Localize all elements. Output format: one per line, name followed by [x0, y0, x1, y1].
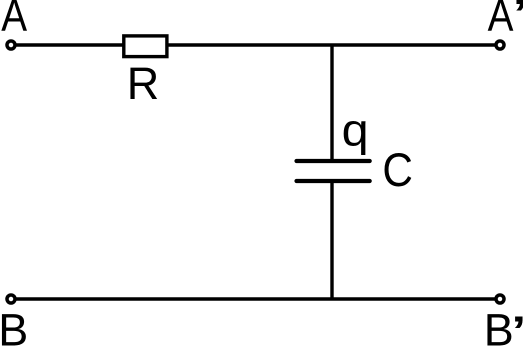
- terminal A': [496, 41, 504, 49]
- svg-text:’: ’: [510, 306, 523, 347]
- svg-text:B: B: [0, 305, 28, 347]
- svg-text:A: A: [488, 0, 514, 40]
- label B' apostrophe: [510, 306, 523, 347]
- capacitor C top plate: [297, 159, 370, 163]
- svg-text:C: C: [382, 143, 413, 197]
- capacitor C bottom plate: [297, 179, 370, 183]
- label A' letter: [488, 0, 514, 40]
- label q: [342, 105, 369, 155]
- label A: [1, 0, 27, 40]
- terminal B: [7, 295, 15, 303]
- wire top rail A to A': [11, 43, 500, 46]
- svg-text:’: ’: [511, 0, 523, 47]
- terminal B': [496, 295, 504, 303]
- svg-text:q: q: [342, 105, 369, 155]
- svg-text:A: A: [1, 0, 27, 40]
- label A' apostrophe: [511, 0, 523, 47]
- label C: [382, 143, 413, 197]
- svg-text:R: R: [127, 58, 160, 109]
- terminal A: [7, 41, 15, 49]
- wire capacitor to bottom rail: [330, 181, 333, 299]
- wire vertical branch from top rail to capacitor: [330, 45, 333, 161]
- wire bottom rail B to B': [11, 297, 500, 300]
- resistor R body: [124, 36, 167, 57]
